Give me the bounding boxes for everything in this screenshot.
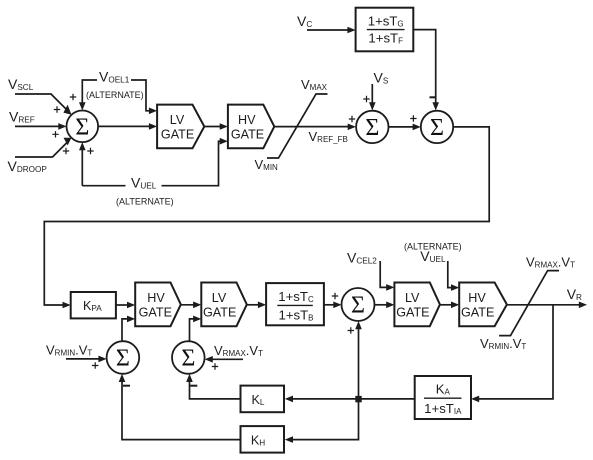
wire S4 to LV gate row2 second (375, 304, 391, 306)
svg-text:GATE: GATE (461, 306, 494, 320)
arrowhead VS into S2 (369, 102, 376, 110)
svg-text:Σ: Σ (365, 115, 379, 141)
wire junction down to KH input (289, 399, 359, 440)
node VC label (297, 13, 312, 29)
arrowhead into LV gate (149, 123, 157, 130)
wire VUEL into HV gate row2 second (448, 261, 456, 288)
label (ALTERNATE) for VUEL row1 (116, 197, 174, 207)
svg-text:GATE: GATE (203, 306, 236, 320)
wire junction up into S4 bottom (358, 325, 360, 396)
minus sign S3 top input (430, 96, 437, 98)
svg-text:LV: LV (170, 113, 185, 127)
arrowhead into S3 top (432, 102, 439, 110)
wire VDROOP to summer S1 (15, 140, 70, 157)
plus sign S6 right input (212, 363, 218, 369)
wire summer S5 up into HV gate row2 lower input (122, 319, 132, 341)
arrowhead into HV gate row2 (127, 302, 135, 309)
svg-text:Σ: Σ (181, 346, 195, 372)
arrowhead into S4 (333, 302, 341, 309)
wire S1 output to LV gate (98, 125, 153, 127)
node VREF label (9, 108, 35, 124)
arrowhead into S6 right (205, 356, 213, 363)
wire VSCL to summer S1 (15, 94, 70, 113)
arrowhead VREF (58, 123, 66, 130)
block KH (241, 426, 285, 453)
arrowhead into LV gate row2 lower (193, 316, 201, 323)
svg-text:1+sTF: 1+sTF (368, 31, 403, 46)
arrowhead VUEL into HV gate (451, 284, 459, 291)
svg-text:KL: KL (252, 393, 265, 407)
svg-text:VMAX: VMAX (301, 77, 328, 92)
arrowhead into S3 (413, 124, 421, 131)
block KPA (71, 292, 116, 318)
LV gate row1 (157, 105, 204, 149)
node VREF_FB label (309, 129, 348, 144)
svg-text:1+sTG: 1+sTG (368, 14, 404, 29)
wire S2 to S3 (389, 126, 418, 128)
node VUEL label row2 (420, 248, 446, 264)
arrowhead into LV gate (386, 302, 394, 309)
plus sign VSCL (54, 106, 60, 112)
wire KL output to summer S6 (190, 378, 241, 399)
summer S2 (356, 111, 388, 143)
svg-text:VSCL: VSCL (8, 76, 34, 92)
wire block TC to summer S4 (324, 304, 338, 306)
summer S4 (342, 288, 375, 321)
svg-text:VRMAX.VT: VRMAX.VT (214, 343, 263, 358)
wire VS down into S2 (371, 84, 373, 107)
node VS label (374, 70, 389, 86)
node VUEL label (alternate, row 1) (131, 175, 157, 191)
HV gate row1 (228, 105, 274, 149)
block KA over 1+sTIA (415, 376, 471, 419)
plus sign VS (363, 96, 369, 102)
arrowhead into S5 bottom (119, 374, 126, 382)
node VRMIN.VT label row2 (480, 336, 526, 351)
wire VRMIN.VT into S5 (66, 358, 103, 360)
wire VC to transfer block TG (307, 29, 352, 31)
svg-text:KH: KH (251, 433, 265, 447)
svg-text:VS: VS (374, 70, 389, 86)
node VCEL2 label (347, 250, 377, 266)
wire VCEL2 into LV gate row2 second (380, 261, 390, 287)
wire VUEL segment to label (82, 185, 125, 187)
svg-text:VREF: VREF (9, 108, 35, 124)
plus sign VDROOP (63, 148, 69, 154)
plus sign S3 left input (410, 115, 416, 121)
node VRMAX.VT label at S6 (214, 343, 263, 358)
wire VOEL1 down to summer S1 (82, 80, 97, 107)
node VRMIN.VT label at S5 (46, 343, 92, 358)
block KL (241, 386, 285, 413)
svg-text:VC: VC (297, 13, 312, 29)
minus sign S5 bottom (123, 385, 130, 387)
svg-text:VCEL2: VCEL2 (347, 250, 377, 266)
arrowhead into KA right edge (471, 396, 479, 403)
svg-text:VREF_FB: VREF_FB (309, 129, 348, 144)
wire LV gate row2 to block TC (247, 304, 262, 306)
wire VR tee down to KA block (475, 305, 553, 399)
plus sign S2 left input (349, 116, 355, 122)
arrowhead into block TC (258, 302, 266, 309)
svg-text:GATE: GATE (161, 128, 194, 142)
plus sign S4 left input (332, 293, 338, 299)
svg-text:VRMIN.VT: VRMIN.VT (480, 336, 526, 351)
svg-text:(ALTERNATE): (ALTERNATE) (404, 242, 462, 252)
arrowhead VDROOP (64, 138, 72, 146)
label (ALTERNATE) for VOEL1 (86, 90, 144, 100)
svg-text:KA: KA (436, 382, 451, 397)
svg-text:(ALTERNATE): (ALTERNATE) (86, 90, 144, 100)
summer S1 (67, 111, 99, 143)
node VDROOP label (8, 158, 48, 174)
node VOEL1 label (99, 69, 130, 85)
svg-text:GATE: GATE (231, 128, 264, 142)
arrowhead into KH right edge (285, 436, 293, 443)
svg-text:1+sTC: 1+sTC (278, 289, 314, 304)
arrowhead VC into block (347, 27, 355, 34)
arrowhead VSCL (63, 105, 71, 115)
svg-text:KPA: KPA (83, 299, 102, 313)
LV gate row2 first (201, 283, 247, 327)
arrowhead VUEL into S1 bottom (79, 142, 86, 150)
arrowhead into KL right edge (285, 396, 293, 403)
wire VUEL up into summer S1 (81, 146, 83, 186)
limiter slash row1 (267, 94, 328, 158)
arrowhead VUEL into HV gate (220, 138, 228, 145)
wire LV gate to HV gate (204, 126, 224, 128)
wire KPA to HV gate row2 (116, 304, 132, 306)
junction dot (355, 396, 361, 402)
wire block TG output down to S3 (413, 30, 435, 107)
wire LV to HV gate row2 second (440, 304, 456, 306)
svg-text:GATE: GATE (139, 306, 172, 320)
svg-text:Σ: Σ (430, 115, 444, 141)
summer S5 (107, 341, 140, 374)
label (ALTERNATE) for VUEL row2 (404, 242, 462, 252)
wire VUEL right branch to HV gate (162, 141, 225, 186)
wire S3 output feedback loop down to KPA (44, 127, 489, 305)
svg-text:VMIN: VMIN (255, 157, 279, 172)
arrowhead into LV gate row2 (193, 302, 201, 309)
svg-text:HV: HV (468, 291, 486, 305)
arrowhead into S6 bottom (186, 374, 193, 382)
svg-text:VRMAX.VT: VRMAX.VT (526, 254, 575, 269)
wire VREF to summer S1 (15, 125, 62, 127)
limiter slash row2 (499, 271, 559, 336)
svg-text:VOEL1: VOEL1 (99, 69, 130, 85)
wire KH output to summer S5 (122, 378, 241, 440)
svg-text:1+sTB: 1+sTB (278, 307, 313, 322)
svg-text:(ALTERNATE): (ALTERNATE) (116, 197, 174, 207)
wire VRMAX.VT into S6 from right (209, 358, 244, 360)
wire summer S6 up into LV gate row2 lower input (190, 319, 198, 341)
svg-text:Σ: Σ (351, 293, 365, 319)
svg-text:VUEL: VUEL (131, 175, 157, 191)
node VRMAX.VT label row2 (526, 254, 575, 269)
svg-text:VDROOP: VDROOP (8, 158, 48, 174)
plus sign VUEL at S1 (87, 148, 93, 154)
HV gate row2 first (135, 283, 181, 327)
wire HV gate row2 output VR (507, 304, 583, 306)
minus sign S6 bottom (190, 385, 197, 387)
svg-text:VRMIN.VT: VRMIN.VT (46, 343, 92, 358)
svg-text:1+sTIA: 1+sTIA (424, 401, 462, 416)
plus sign VOEL1 (70, 94, 76, 100)
arrowhead VR output (579, 302, 587, 309)
plus sign S5 left input (92, 362, 98, 368)
svg-text:LV: LV (212, 291, 227, 305)
wire KA output left to KL (289, 398, 415, 400)
arrowhead into KPA (63, 302, 71, 309)
svg-text:Σ: Σ (116, 346, 130, 372)
arrowhead into HV gate row2 second (451, 302, 459, 309)
arrowhead into HV gate row2 lower (127, 316, 135, 323)
arrowhead into S2 (348, 124, 356, 131)
node VR label (567, 286, 582, 302)
wire HV gate to summer S2 (274, 126, 352, 128)
svg-text:GATE: GATE (396, 306, 429, 320)
node VMIN label (255, 157, 279, 172)
HV gate row2 second (459, 283, 507, 327)
arrowhead into S4 bottom (355, 321, 362, 329)
arrowhead VOEL1 into LV gate (149, 108, 157, 115)
arrowhead into S5 left (98, 356, 106, 363)
summer S3 (421, 111, 453, 143)
wire HV to LV gate row2 (181, 304, 198, 306)
svg-text:VR: VR (567, 286, 582, 302)
arrowhead VCEL2 into LV gate (386, 284, 394, 291)
wire VOEL1 right branch to LV gate (131, 80, 153, 111)
node VMAX label (301, 77, 328, 92)
node VSCL label (8, 76, 34, 92)
summer S6 (172, 341, 205, 374)
arrowhead VOEL1 into S1 (79, 102, 86, 110)
svg-text:HV: HV (238, 113, 256, 127)
plus sign VREF (52, 131, 58, 137)
plus sign S4 bottom input (348, 327, 354, 333)
LV gate row2 second (394, 283, 440, 327)
svg-text:HV: HV (147, 291, 165, 305)
block 1+sTC over 1+sTB (266, 283, 324, 325)
block 1+sTG over 1+sTF (356, 8, 414, 52)
svg-text:Σ: Σ (75, 114, 89, 140)
arrowhead into HV gate (220, 123, 228, 130)
svg-text:LV: LV (405, 291, 420, 305)
